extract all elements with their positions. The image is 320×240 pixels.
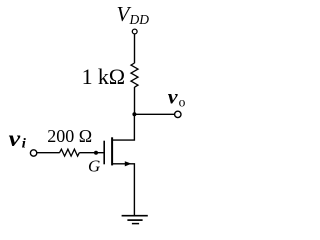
resistor R2 200 Ohm zigzag xyxy=(60,149,80,156)
terminal vi xyxy=(30,150,36,156)
terminal VDD xyxy=(132,29,137,34)
arrowhead Q1 source xyxy=(125,161,132,166)
terminal vo xyxy=(175,111,181,117)
svg-text:G: G xyxy=(88,157,100,176)
svg-text:v: v xyxy=(9,126,21,151)
wire vi to R2 xyxy=(37,152,60,154)
svg-text:1 kΩ: 1 kΩ xyxy=(82,64,126,89)
transistor Q1 channel bar xyxy=(111,137,113,165)
junction dot on gate wire xyxy=(94,151,98,155)
wire VDD to R1 xyxy=(134,34,136,63)
svg-text:DD: DD xyxy=(129,12,150,27)
junction node vo xyxy=(132,112,136,116)
svg-text:o: o xyxy=(179,95,186,110)
wire junction to vo terminal xyxy=(134,113,174,115)
resistor R1 1 kOhm zigzag xyxy=(131,63,138,87)
wire junction to Q1 drain xyxy=(112,114,134,140)
svg-text:v: v xyxy=(168,85,178,109)
node VDD label xyxy=(117,2,150,27)
wire R2 to Q1 gate xyxy=(79,152,103,154)
wire R1 to node vo junction xyxy=(134,87,136,114)
node vo label xyxy=(168,85,186,110)
transistor Q1 gate bar xyxy=(103,141,105,165)
wire Q1 source lead xyxy=(112,164,134,216)
ground xyxy=(122,216,148,224)
node vi label xyxy=(9,126,26,152)
svg-text:i: i xyxy=(22,136,26,151)
svg-text:200 Ω: 200 Ω xyxy=(47,126,92,146)
